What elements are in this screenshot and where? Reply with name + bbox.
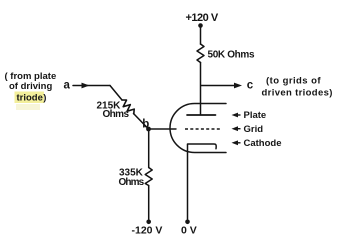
svg-text:of driving: of driving — [9, 81, 52, 92]
wire input from node a (horizontal with mid arrowhead) — [73, 85, 110, 87]
svg-text:(to grids of: (to grids of — [266, 76, 321, 87]
svg-text:triode: triode — [17, 93, 43, 104]
cathode (hooked bar) — [188, 144, 217, 149]
wire +120V feed — [200, 26, 202, 44]
grid lead (solid from node b) — [149, 128, 177, 130]
arrowhead on output wire at node c — [234, 83, 242, 89]
wire R3 to -120V terminal — [148, 186, 150, 222]
node -120V terminal dot — [146, 220, 151, 225]
svg-text:Ohms: Ohms — [119, 177, 145, 188]
svg-text:+120 V: +120 V — [186, 12, 219, 24]
node 0V terminal dot — [185, 220, 190, 225]
wire node b down to R3 — [148, 129, 150, 168]
arrowhead on input wire near node a — [82, 83, 90, 89]
node b junction dot — [146, 127, 151, 132]
svg-text:Plate: Plate — [244, 110, 267, 121]
svg-text:b: b — [142, 118, 149, 130]
svg-text:Cathode: Cathode — [244, 138, 282, 149]
svg-text:50K Ohms: 50K Ohms — [208, 50, 255, 61]
highlight behind word triode — [15, 92, 45, 104]
label arrow to Cathode — [232, 140, 241, 145]
resistor R2 215K Ohms (diagonal zigzag) — [122, 100, 134, 114]
svg-text:): ) — [43, 93, 46, 104]
resistor R1 50K Ohms (vertical zigzag) — [197, 44, 204, 63]
wire output to node c with arrowhead — [201, 85, 235, 87]
tube V1 envelope — [170, 104, 226, 153]
node +120V terminal dot — [198, 23, 203, 28]
wire diagonal from R2 to node b — [134, 114, 149, 130]
svg-text:0 V: 0 V — [181, 225, 197, 237]
resistor R3 335K Ohms (vertical zigzag) — [145, 168, 152, 186]
svg-text:driven triodes): driven triodes) — [262, 88, 333, 99]
wire cathode lead down to 0V terminal — [187, 145, 189, 222]
plate (anode) bar — [187, 114, 216, 116]
grid (dashed) — [185, 128, 221, 130]
svg-text:Grid: Grid — [244, 124, 264, 135]
svg-text:a: a — [64, 80, 71, 92]
wire plate lead from R1 down into tube — [200, 63, 202, 115]
svg-text:-120 V: -120 V — [132, 225, 163, 237]
svg-text:Ohms: Ohms — [103, 109, 130, 120]
svg-text:c: c — [247, 80, 254, 92]
label arrow to Grid — [232, 126, 241, 131]
wire diagonal from input to R2 — [110, 86, 122, 101]
label arrow to Plate — [232, 113, 241, 118]
